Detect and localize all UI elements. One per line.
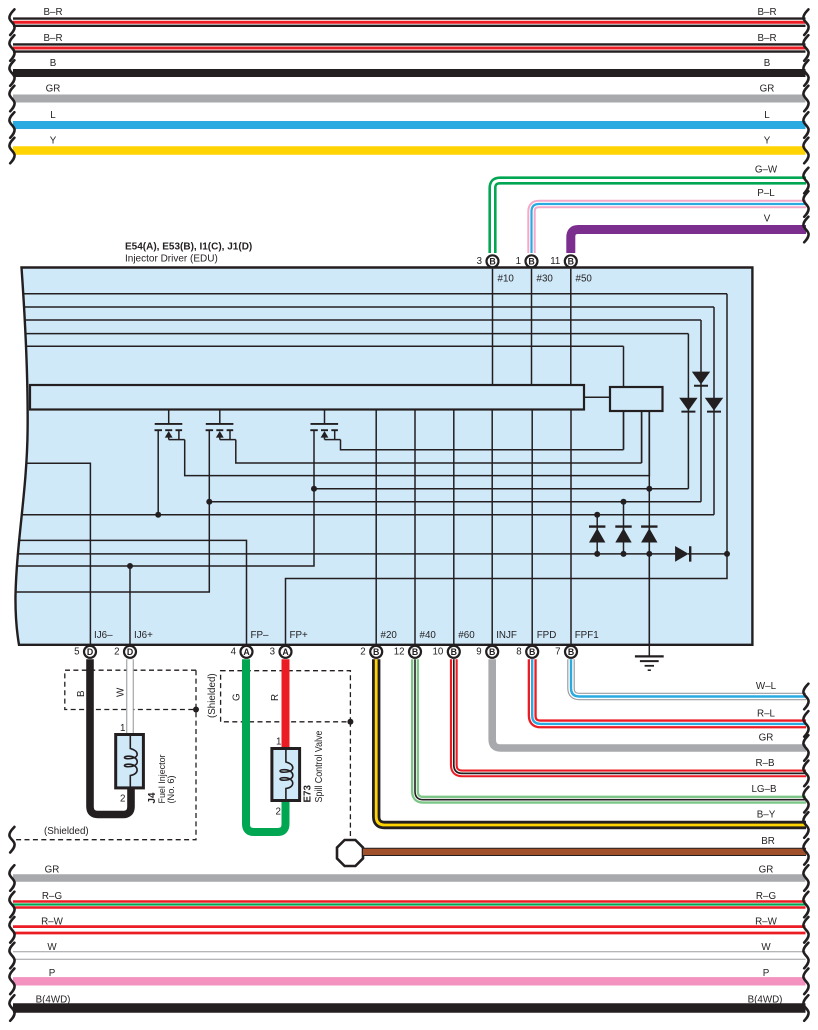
wire B (black) pin5 to J4 pin2: [90, 659, 131, 814]
wire bus R–G (bottom): [13, 900, 806, 908]
node D6 anode junction: [646, 551, 652, 557]
diode D2 (on x713): [705, 398, 723, 411]
svg-text:L: L: [50, 110, 56, 121]
connector pin 11(B) node #50: [565, 255, 577, 267]
diode D3 (on x688): [679, 398, 697, 411]
wire Q2 source rail: [209, 501, 701, 503]
wire G (green) pin4 to E73 pin2: [246, 659, 286, 832]
wire internal top rail 3: [12, 319, 701, 321]
wire U2 to ground rail / diode D6 branch: [648, 411, 650, 476]
wire Q3 source lead (to IJ6+ rail): [12, 431, 314, 566]
svg-text:3: 3: [270, 647, 275, 658]
svg-text:#20: #20: [381, 630, 398, 641]
svg-text:R–W: R–W: [755, 916, 778, 927]
svg-text:#10: #10: [498, 274, 515, 285]
wire bus R–W (bottom): [13, 925, 806, 934]
wire IJ6+ vertical: [129, 566, 131, 645]
diode D5: [623, 528, 625, 554]
svg-text:A: A: [243, 647, 250, 657]
wire W–L: [571, 659, 806, 696]
node shield junction J4: [193, 707, 199, 713]
wire #50 vertical: [570, 269, 572, 386]
svg-text:D: D: [127, 647, 133, 657]
wire V to pin #50: [571, 230, 806, 254]
diode D4: [596, 528, 598, 554]
svg-text:B: B: [528, 257, 534, 267]
shield outline (E73, dashed): [221, 671, 351, 722]
wire Q1 source rail: [12, 514, 714, 516]
svg-text:FP+: FP+: [290, 630, 309, 641]
svg-text:W–L: W–L: [756, 681, 777, 692]
svg-text:(Shielded): (Shielded): [44, 826, 89, 837]
wire Q3 source rail: [314, 488, 688, 490]
wire bus B(4WD) (bottom): [13, 1003, 806, 1013]
svg-text:A: A: [282, 647, 289, 657]
node shield junction E73: [347, 719, 353, 725]
svg-text:#40: #40: [420, 630, 437, 641]
svg-text:P: P: [49, 968, 56, 979]
svg-text:G: G: [232, 693, 243, 701]
svg-text:B–R: B–R: [43, 7, 62, 18]
svg-text:FPF1: FPF1: [575, 630, 599, 641]
svg-text:B: B: [568, 257, 574, 267]
wire D7 to x726 node: [688, 553, 727, 555]
svg-text:R–G: R–G: [756, 891, 776, 902]
svg-text:1: 1: [516, 256, 521, 267]
svg-text:R–W: R–W: [41, 916, 64, 927]
wire FPF1 vertical: [570, 410, 572, 646]
wire Q1 source lead: [157, 431, 159, 515]
wire GR: [492, 659, 806, 748]
svg-text:B–Y: B–Y: [757, 809, 776, 820]
wire FP+ rail: [286, 554, 728, 645]
connector pin 7(B) FPF1: [565, 646, 577, 658]
svg-text:Y: Y: [50, 136, 57, 147]
svg-text:B–R: B–R: [757, 33, 776, 44]
wire Q2 drain rail: [236, 440, 642, 463]
svg-text:B: B: [451, 647, 457, 657]
wire bus GR (bottom): [13, 874, 806, 881]
svg-text:5: 5: [74, 647, 79, 658]
wire bus B–R (top): [13, 17, 806, 27]
svg-text:B: B: [568, 647, 574, 657]
wire bus B (top): [13, 69, 806, 77]
svg-text:Injector Driver (EDU): Injector Driver (EDU): [125, 253, 218, 264]
connector pin 5(D) IJ6-: [84, 646, 96, 658]
wire FPD vertical: [531, 410, 533, 646]
wire D4 branch: [596, 515, 598, 529]
diode D7: [675, 546, 689, 562]
wire #40 vertical: [414, 410, 416, 646]
svg-text:GR: GR: [46, 84, 61, 95]
wire #20 vertical: [375, 410, 377, 646]
driver IC block U1 (long rectangle): [30, 385, 584, 410]
wire G-W to pin #10: [493, 181, 807, 254]
wire vertical through diode D1 (x700): [700, 320, 702, 502]
wire vertical through diode D3 (x688): [687, 334, 689, 489]
transistor Q2 (MOSFET): [219, 410, 221, 424]
svg-text:2: 2: [120, 794, 125, 805]
wire vertical through diode D2 (x713): [713, 307, 715, 515]
wire bus L (top): [13, 121, 806, 129]
svg-text:B: B: [489, 257, 495, 267]
svg-text:8: 8: [516, 647, 521, 658]
svg-text:B: B: [489, 647, 495, 657]
svg-text:Y: Y: [764, 136, 771, 147]
shield left continuation squiggle: [9, 827, 14, 853]
svg-text:B–R: B–R: [43, 33, 62, 44]
wire vertical to diode line (x726): [726, 294, 728, 554]
svg-text:FP–: FP–: [251, 630, 270, 641]
wire R–L: [532, 659, 806, 724]
wire LG–B: [415, 659, 806, 800]
connector pin 1(B) node #30: [526, 255, 538, 267]
wire bus B–R (top): [13, 43, 806, 53]
wire #10 vertical: [492, 269, 494, 386]
node D5 anode junction: [621, 551, 627, 557]
svg-text:P: P: [763, 968, 770, 979]
control block U2 (small rectangle): [610, 387, 663, 411]
svg-text:R–G: R–G: [42, 891, 62, 902]
svg-text:Spill Control Valve: Spill Control Valve: [314, 730, 325, 802]
wire #30 vertical: [531, 269, 533, 386]
svg-text:BR: BR: [761, 836, 775, 847]
shield outline (J4, dashed): [12, 670, 196, 840]
wire INJF vertical: [491, 410, 493, 646]
svg-text:V: V: [764, 214, 771, 225]
node D5 junction: [621, 499, 627, 505]
svg-text:E54(A), E53(B), I1(C), J1(D): E54(A), E53(B), I1(C), J1(D): [125, 242, 252, 253]
svg-text:11: 11: [550, 256, 560, 267]
connector pin 3(B) node #10: [487, 255, 499, 267]
wire internal top rail 2: [12, 306, 714, 308]
wire U2 to Q2 drain rail: [641, 411, 643, 463]
wire Q1 drain rail: [185, 440, 650, 476]
svg-text:R: R: [270, 694, 281, 701]
wire bus Y (top): [13, 146, 806, 155]
wire P-L to pin #30: [532, 204, 807, 253]
diode D6: [648, 528, 650, 554]
fuel injector J4: [116, 735, 144, 788]
svg-text:10: 10: [433, 647, 444, 658]
wire internal top rail 4: [12, 333, 688, 335]
wire V right continuation: [803, 217, 808, 243]
node D4 anode junction: [594, 551, 600, 557]
wire BR: [363, 848, 806, 856]
svg-text:D: D: [87, 647, 93, 657]
connector pin 3(A) FP+: [280, 646, 292, 658]
svg-text:LG–B: LG–B: [751, 784, 777, 795]
connector pin 12(B) #40: [409, 646, 421, 658]
ground symbol: [648, 554, 650, 657]
wire IJ6- rail: [12, 463, 90, 645]
svg-text:IJ6–: IJ6–: [94, 630, 113, 641]
wire bus W (bottom): [13, 951, 806, 960]
svg-text:B(4WD): B(4WD): [748, 995, 783, 1006]
diode D1 (on x700): [692, 372, 710, 385]
svg-text:W: W: [47, 942, 57, 953]
svg-text:B: B: [764, 58, 771, 69]
svg-text:1: 1: [120, 723, 125, 734]
svg-text:(No. 6): (No. 6): [166, 775, 176, 803]
link wire U1-U2: [584, 396, 610, 398]
svg-text:B(4WD): B(4WD): [36, 995, 71, 1006]
connector pin 9(B) INJF: [486, 646, 498, 658]
svg-text:B: B: [76, 690, 87, 697]
node D6 junction: [646, 486, 652, 492]
node x727 junction: [724, 551, 730, 557]
wire Q3 drain rail: [341, 440, 624, 450]
wire bus P (bottom): [13, 977, 806, 985]
wire W (white) pin2 to J4 pin1: [126, 659, 134, 736]
svg-text:#30: #30: [537, 274, 554, 285]
wire P-L right continuation: [803, 191, 808, 217]
svg-text:(Shielded): (Shielded): [207, 673, 218, 718]
svg-text:B: B: [373, 647, 379, 657]
svg-text:E73: E73: [303, 785, 314, 803]
svg-text:2: 2: [360, 647, 365, 658]
svg-text:7: 7: [555, 647, 560, 658]
connector pin 8(B) FPD: [526, 646, 538, 658]
wire D5 branch: [623, 502, 625, 529]
wire B–Y: [376, 659, 806, 825]
svg-text:B: B: [412, 647, 418, 657]
svg-text:9: 9: [476, 647, 481, 658]
wire cathode rail (left edge to D7): [12, 553, 677, 555]
svg-text:12: 12: [394, 647, 405, 658]
svg-text:4: 4: [231, 647, 237, 658]
svg-text:R–B: R–B: [755, 758, 775, 769]
connector pin 4(A) FP-: [241, 646, 253, 658]
svg-text:R–L: R–L: [757, 708, 776, 719]
wire bus GR (top): [13, 95, 806, 103]
svg-text:P–L: P–L: [757, 188, 775, 199]
wire U2 to Q3 drain rail: [623, 411, 625, 450]
wire vertical to control block (x623): [623, 346, 625, 388]
svg-text:GR: GR: [760, 84, 775, 95]
wire R (red) pin3 to E73 pin1: [282, 659, 290, 750]
svg-text:#50: #50: [576, 274, 593, 285]
svg-text:GR: GR: [759, 732, 774, 743]
svg-text:2: 2: [276, 807, 281, 818]
svg-text:3: 3: [477, 256, 482, 267]
wire R–B: [454, 659, 806, 773]
connector pin 2(D) IJ6+: [124, 646, 136, 658]
svg-text:W: W: [761, 942, 771, 953]
svg-text:#60: #60: [458, 630, 475, 641]
connector pin 2(B) #20: [370, 646, 382, 658]
svg-text:W: W: [116, 687, 127, 697]
wire G-W right continuation: [803, 168, 808, 194]
shield drain wire to connector (dashed): [349, 722, 351, 839]
svg-text:INJF: INJF: [496, 630, 517, 641]
wire Q2 source lead (to left edge): [12, 431, 209, 592]
svg-text:FPD: FPD: [537, 630, 557, 641]
svg-text:L: L: [764, 110, 770, 121]
spill control valve E73: [272, 749, 300, 801]
svg-text:1: 1: [276, 737, 281, 748]
svg-text:B: B: [529, 647, 535, 657]
node Q1-source junction: [155, 512, 161, 518]
svg-text:GR: GR: [45, 865, 60, 876]
svg-text:B: B: [50, 58, 57, 69]
svg-text:IJ6+: IJ6+: [134, 630, 153, 641]
svg-text:2: 2: [114, 647, 119, 658]
wire internal top rail 5: [12, 345, 624, 347]
wire #60 vertical: [453, 410, 455, 646]
wire internal top rail 1: [12, 293, 727, 295]
node IJ6+ junction: [127, 563, 133, 569]
svg-text:GR: GR: [759, 865, 774, 876]
svg-text:B–R: B–R: [757, 7, 776, 18]
transistor Q1 (MOSFET): [168, 410, 170, 424]
node Q3-source junction: [311, 486, 317, 492]
node Q2-source junction: [206, 499, 212, 505]
svg-text:G–W: G–W: [755, 165, 778, 176]
EDU box E54(A), E53(B), I1(C), J1(D) Injector Driver: [15, 268, 752, 645]
connector octagon: [337, 840, 363, 866]
node D4 junction: [594, 512, 600, 518]
transistor Q3 (MOSFET): [324, 410, 326, 424]
wire FP- rail: [12, 540, 247, 645]
connector pin 10(B) #60: [448, 646, 460, 658]
